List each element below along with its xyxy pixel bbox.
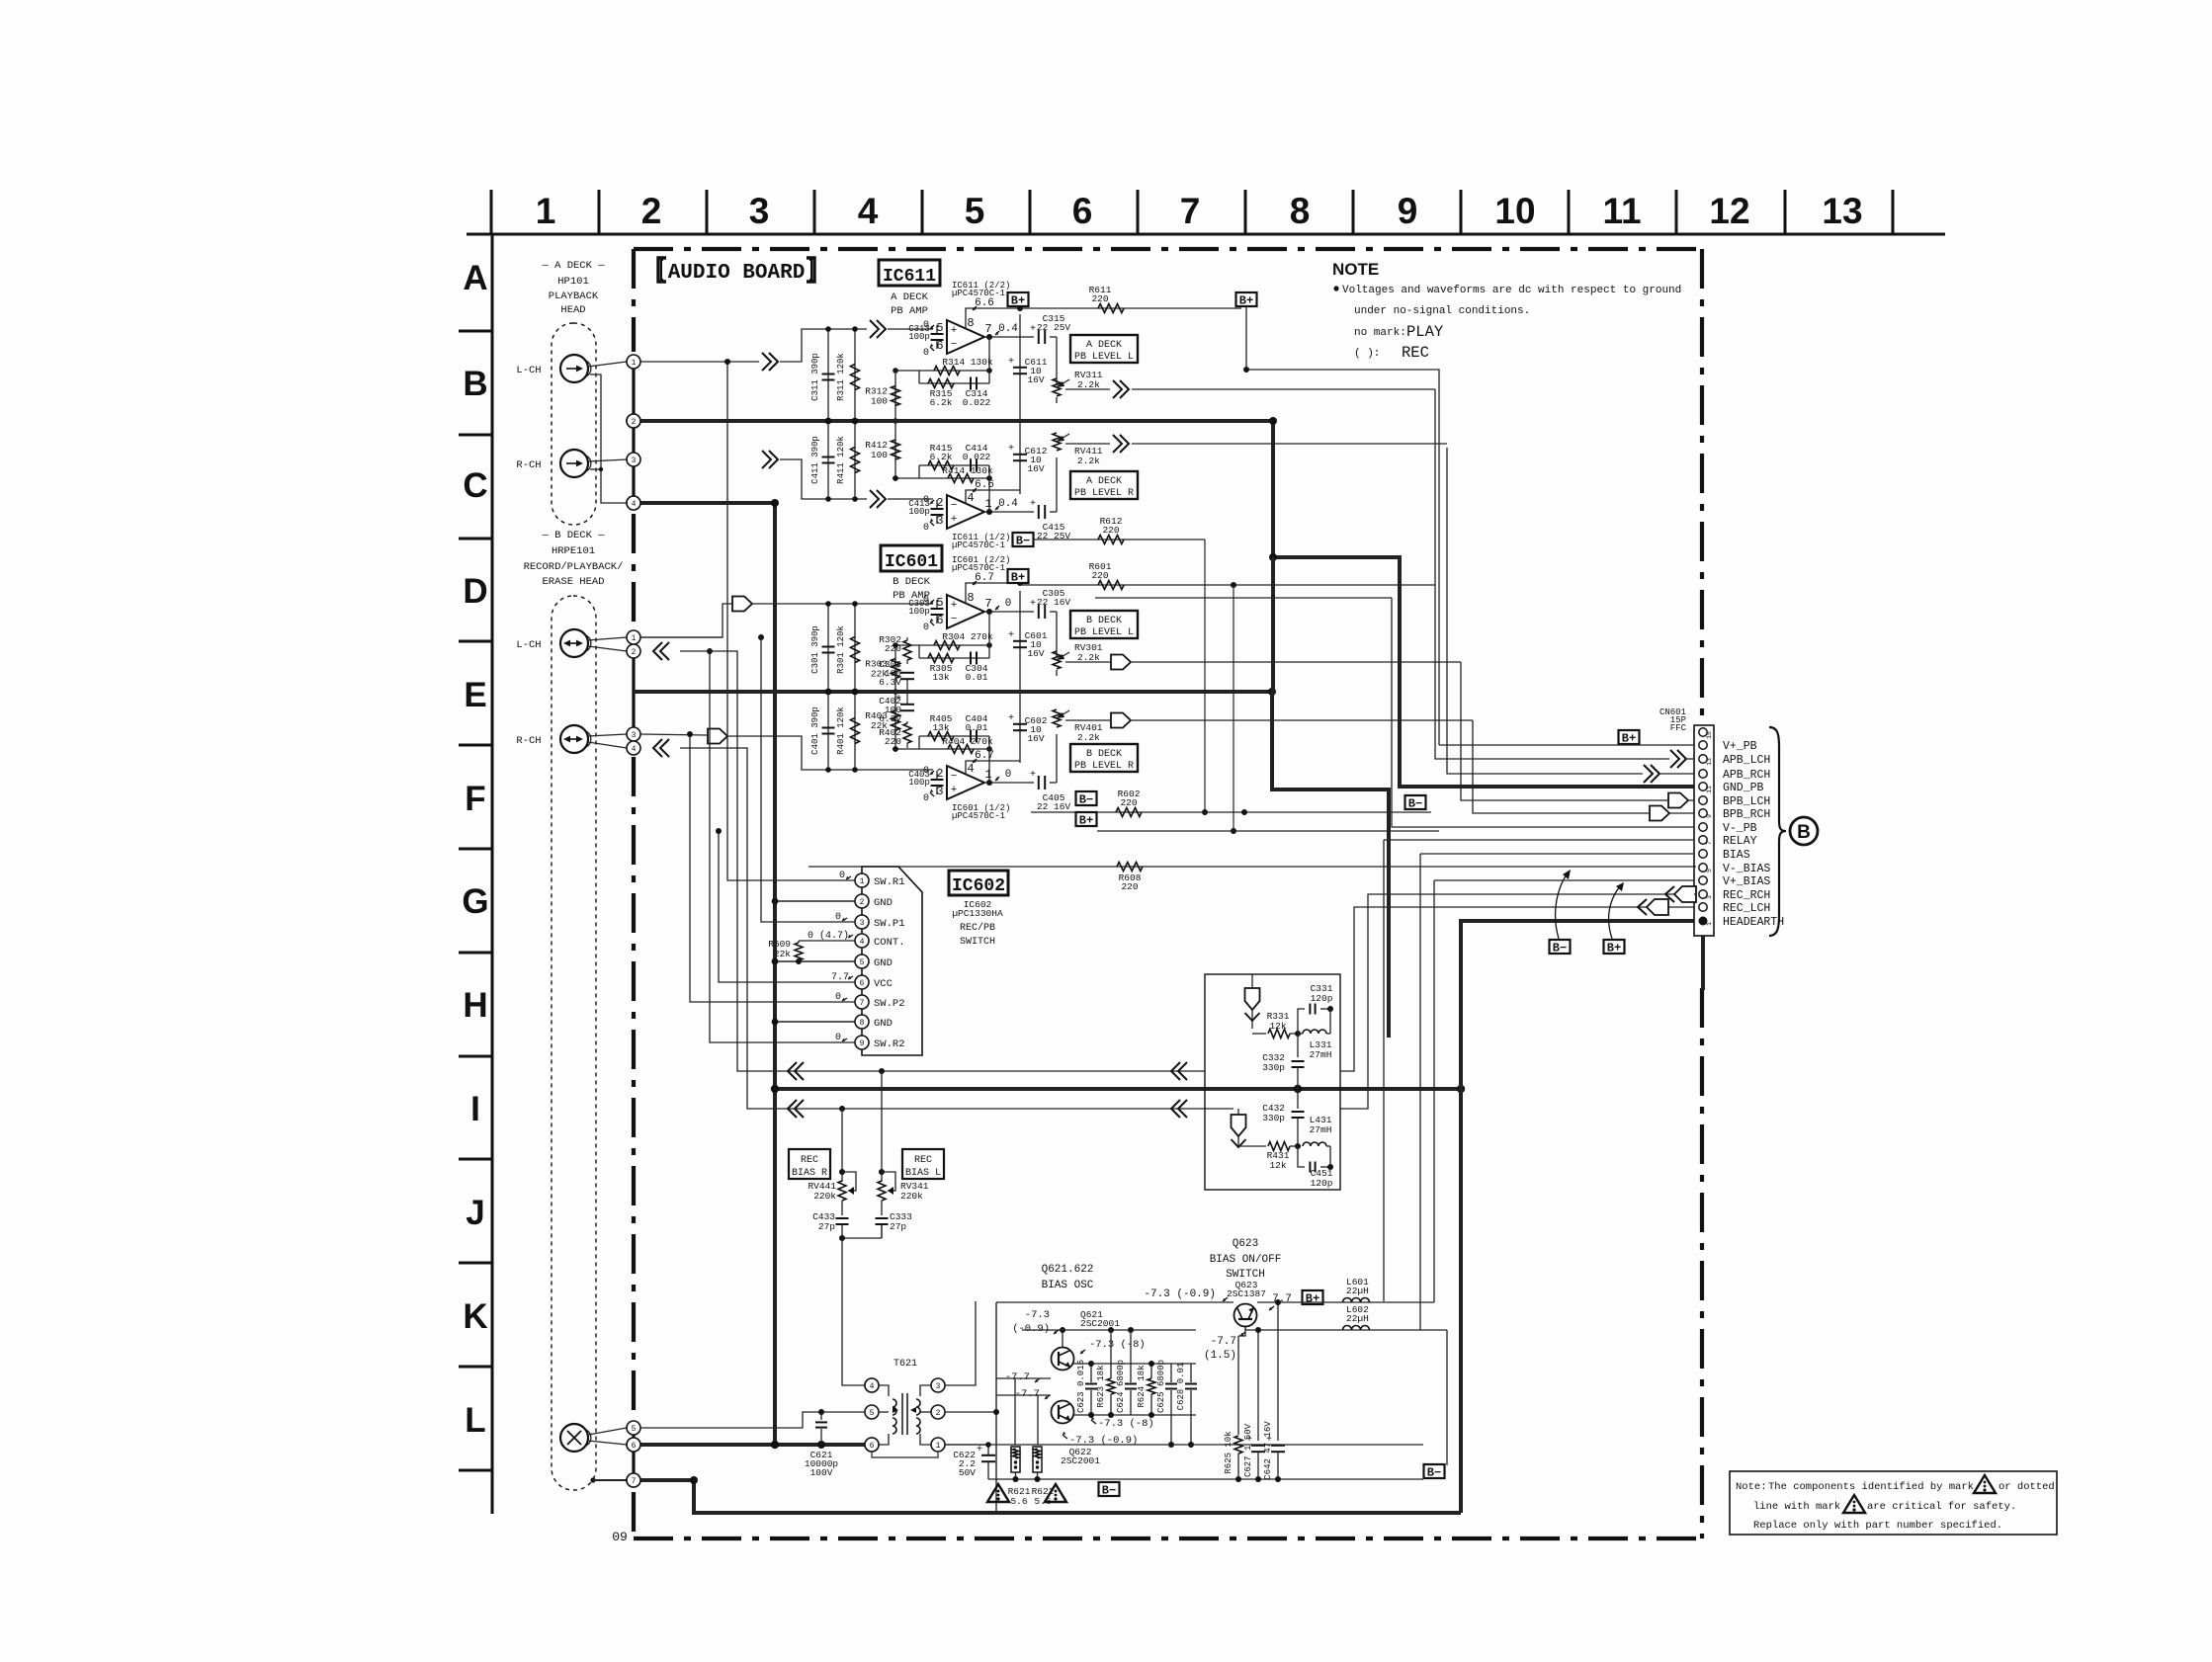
svg-text:6: 6: [632, 1442, 637, 1451]
svg-text:BIAS OSC: BIAS OSC: [1042, 1280, 1094, 1291]
top ruler ticks: [490, 190, 493, 234]
resistor R625: [1237, 1336, 1239, 1435]
svg-text:under no-signal conditions.: under no-signal conditions.: [1354, 305, 1530, 317]
inductor L601: [1343, 1298, 1370, 1303]
wire A in L route: [780, 329, 867, 362]
pin 1 (B): [627, 630, 640, 644]
CN601 pin 9: [1699, 809, 1707, 817]
trimmer RV401: [1056, 734, 1058, 783]
svg-text:PB LEVEL L: PB LEVEL L: [1074, 352, 1134, 363]
wire bundle v1: [727, 362, 855, 880]
box A DECK PB LEVEL R: [1070, 471, 1138, 499]
svg-text:B−: B−: [1427, 1466, 1441, 1480]
CN601 pin 14: [1699, 741, 1707, 749]
resistor R304: [895, 644, 989, 646]
wire L602 row: [1245, 1327, 1435, 1330]
svg-text:27p: 27p: [890, 1221, 906, 1232]
head HP101 L-CH: [560, 355, 588, 382]
svg-text:+: +: [1008, 357, 1014, 368]
output wire upper: [984, 611, 1030, 613]
B- box B lower: [1076, 791, 1097, 805]
gnd bus B corner: [1272, 692, 1389, 1038]
arrow A in L a: [762, 353, 771, 371]
osc bottom rail: [945, 1444, 1423, 1446]
wire T621 pin2: [945, 1411, 996, 1413]
left ruler line: [491, 234, 494, 1514]
wire RV341 top: [881, 1071, 883, 1182]
svg-text:4: 4: [632, 745, 637, 754]
svg-text:NOTE: NOTE: [1332, 260, 1379, 279]
B head pin bus: [632, 632, 635, 753]
wire Q622 emitter: [1073, 1414, 1196, 1416]
svg-text:A: A: [463, 259, 487, 297]
wire APB_RCH: [1447, 448, 1643, 774]
svg-text:A DECK: A DECK: [1086, 476, 1122, 487]
svg-text:µPC4570C-1: µPC4570C-1: [952, 540, 1005, 550]
note bullet: [1333, 286, 1338, 291]
gnd bus B: [634, 690, 1272, 694]
svg-text:-7.3: -7.3: [1025, 1309, 1050, 1321]
opamp supply wire upper: [966, 308, 1020, 329]
svg-text:5: 5: [860, 958, 865, 967]
box B DECK PB LEVEL L: [1070, 611, 1138, 638]
svg-text:8: 8: [967, 591, 974, 605]
T621 coil arrows: [893, 1407, 898, 1413]
IC602 pin 2 GND: [855, 894, 869, 908]
capacitor C642: [1277, 1302, 1279, 1441]
wire gnd pins IC602: [775, 900, 855, 902]
capacitor C623: [1090, 1377, 1092, 1382]
svg-text:-7.7: -7.7: [1005, 1371, 1030, 1383]
svg-text:50V: 50V: [959, 1467, 976, 1478]
svg-text:R-CH: R-CH: [516, 735, 541, 747]
svg-text:16V: 16V: [1027, 733, 1044, 744]
svg-text:C401 390p: C401 390p: [810, 706, 820, 755]
svg-text:1: 1: [984, 497, 991, 511]
series RC lower: [919, 735, 989, 737]
svg-text:6.3V: 6.3V: [879, 713, 901, 724]
svg-text:-7.3 (-0.9): -7.3 (-0.9): [1144, 1288, 1216, 1300]
svg-text:SW.P1: SW.P1: [874, 918, 905, 930]
svg-text:6: 6: [860, 979, 865, 988]
capacitor C405: [1038, 776, 1040, 789]
svg-text:2: 2: [936, 1409, 941, 1418]
svg-text:22µH: 22µH: [1346, 1286, 1369, 1296]
transistor Q623: [1234, 1304, 1257, 1327]
inductor L331: [1303, 1030, 1326, 1034]
svg-text:16V: 16V: [1027, 374, 1044, 385]
svg-text:220: 220: [885, 736, 901, 747]
svg-text:V-_BIAS: V-_BIAS: [1723, 863, 1770, 875]
CN601 pin 4: [1699, 876, 1707, 884]
CN601 pin 7: [1699, 836, 1707, 844]
wire B in R cont: [727, 736, 933, 770]
capacitor C332: [1297, 1034, 1299, 1057]
svg-text:100V: 100V: [810, 1467, 833, 1478]
arc B+ pointer: [1609, 883, 1623, 939]
svg-text:The components identified by m: The components identified by mark: [1768, 1481, 1974, 1493]
svg-text:220: 220: [1102, 525, 1119, 536]
headearth wire: [1461, 921, 1694, 1513]
svg-text:0: 0: [923, 348, 929, 359]
svg-text:9: 9: [1398, 191, 1418, 231]
wire Q623 emitter: [1245, 1327, 1420, 1330]
wire B upper input: [640, 636, 723, 638]
svg-text:B−: B−: [1079, 793, 1093, 807]
svg-text:L-CH: L-CH: [516, 365, 541, 376]
svg-text:SWITCH: SWITCH: [960, 937, 995, 948]
resistor R312: [894, 371, 896, 421]
arrow REC_RCH: [1665, 886, 1674, 902]
svg-text:-7.7: -7.7: [1015, 1388, 1040, 1400]
svg-text:BPB_RCH: BPB_RCH: [1723, 808, 1770, 821]
svg-text:REC_LCH: REC_LCH: [1723, 902, 1770, 915]
svg-text:Q621.622: Q621.622: [1042, 1264, 1094, 1276]
svg-text:10: 10: [1494, 191, 1535, 231]
svg-text:PLAYBACK: PLAYBACK: [549, 291, 599, 302]
bottom thick wire pin7: [640, 1480, 1461, 1513]
junction: [852, 601, 858, 607]
svg-text:8: 8: [860, 1019, 865, 1028]
svg-text:APB_LCH: APB_LCH: [1723, 754, 1770, 767]
junction: [852, 326, 858, 332]
svg-text:HRPE101: HRPE101: [552, 545, 595, 557]
svg-text:0.01: 0.01: [966, 672, 988, 683]
gnd bus A: [634, 419, 1273, 423]
svg-text:C623 0.015: C623 0.015: [1076, 1360, 1086, 1413]
capacitor C311: [827, 329, 829, 421]
filter box: [1205, 974, 1340, 1190]
svg-text:0: 0: [923, 793, 929, 804]
wire out upper B: [1030, 611, 1034, 613]
box B DECK PB LEVEL R: [1070, 744, 1138, 772]
svg-text:330p: 330p: [1262, 1113, 1285, 1123]
bias box left edge: [995, 1302, 997, 1513]
svg-text:0.022: 0.022: [963, 397, 991, 408]
resistor R623: [1110, 1330, 1112, 1378]
trimmer RV341: [882, 1172, 895, 1191]
svg-text:APB_RCH: APB_RCH: [1723, 769, 1770, 782]
svg-text:R411 120k: R411 120k: [836, 436, 846, 484]
svg-text:3: 3: [1706, 895, 1713, 899]
CN601 pin 12: [1699, 770, 1707, 778]
wire bundle v2: [761, 637, 855, 922]
B+ box G row: [1604, 940, 1625, 954]
wire REC_LCH right: [1631, 906, 1638, 908]
svg-text:27p: 27p: [818, 1221, 835, 1232]
svg-text:R623 18k: R623 18k: [1096, 1365, 1106, 1407]
arrow BPB_LCH: [1668, 793, 1688, 808]
pin 4 (A) redraw: [627, 496, 640, 510]
svg-text:13k: 13k: [932, 672, 949, 683]
arrow rec2 left: [788, 1100, 797, 1118]
svg-text:Q623: Q623: [1233, 1238, 1258, 1250]
B+ box B lower: [1076, 812, 1097, 826]
svg-text:27mH: 27mH: [1310, 1049, 1332, 1060]
svg-text:0.022: 0.022: [963, 452, 991, 462]
svg-text:C624 6800p: C624 6800p: [1116, 1360, 1126, 1413]
op-amp IC601 (2/2): [947, 595, 984, 628]
svg-text:−: −: [951, 614, 958, 625]
IC602 pin 3 SW.P1: [855, 915, 869, 929]
circled B: [1790, 817, 1818, 845]
svg-text:R314 130k: R314 130k: [942, 357, 993, 368]
svg-text:+: +: [1030, 324, 1036, 335]
wire Q621 base: [996, 1377, 1051, 1379]
svg-text:L: L: [465, 1401, 485, 1440]
svg-text:16V: 16V: [1027, 463, 1044, 474]
wire BIAS: [1420, 853, 1694, 855]
capacitor C331: [1298, 1009, 1305, 1034]
wire RV411 to right: [1132, 443, 1447, 445]
svg-text:3: 3: [632, 457, 637, 465]
svg-text:2SC1387: 2SC1387: [1227, 1288, 1266, 1299]
svg-text:-7.3 (-8): -7.3 (-8): [1089, 1339, 1146, 1351]
svg-text:B+: B+: [1011, 294, 1025, 308]
B+ box B left: [1008, 569, 1029, 583]
capacitor C602: [1019, 692, 1021, 763]
svg-text:0: 0: [923, 623, 929, 633]
svg-text:6.7: 6.7: [975, 572, 994, 584]
IC602 pin 6 VCC: [855, 975, 869, 989]
svg-text:13k: 13k: [932, 722, 949, 733]
capacitor C624: [1130, 1330, 1132, 1382]
svg-text:1: 1: [1706, 922, 1713, 926]
A deck head capsule: [552, 323, 596, 525]
svg-text:4: 4: [967, 762, 974, 776]
svg-text:22 25V: 22 25V: [1037, 322, 1071, 333]
svg-text:100: 100: [871, 450, 888, 460]
resistor R331: [1252, 1033, 1266, 1035]
arrow BPB_RCH: [1650, 806, 1669, 821]
svg-text:C625 6800p: C625 6800p: [1156, 1360, 1166, 1413]
svg-text:220k: 220k: [900, 1191, 923, 1202]
svg-text:B−: B−: [1016, 535, 1030, 548]
svg-text:100p: 100p: [908, 332, 930, 342]
svg-text:GND: GND: [874, 897, 893, 909]
wire B in L cont: [752, 603, 933, 605]
wire Q621 collector: [1062, 1330, 1063, 1347]
arrow down 1: [1245, 988, 1260, 1010]
wire filter top entry: [1251, 974, 1253, 1029]
series RC upper: [919, 382, 989, 384]
wire V+_PB: [1439, 744, 1694, 746]
junction B1: [758, 634, 764, 640]
arrow rec1 right: [1171, 1062, 1180, 1080]
svg-text:16V: 16V: [1027, 648, 1044, 659]
svg-text:100: 100: [871, 396, 888, 407]
svg-text:B+: B+: [1011, 571, 1025, 585]
resistor R414: [895, 477, 989, 479]
svg-text:−: −: [951, 771, 958, 783]
svg-text:4: 4: [632, 500, 637, 509]
svg-text:2: 2: [641, 191, 662, 231]
wire Q623 collector: [996, 1301, 1234, 1303]
resistor R621 fusible: [1011, 1447, 1020, 1472]
svg-text:+: +: [977, 1445, 982, 1455]
T621 left pins: [865, 1378, 879, 1392]
resistor R404: [895, 748, 989, 750]
CN601 pin 2: [1699, 903, 1707, 911]
op-amp IC601 (1/2): [947, 766, 984, 799]
capacitor C305: [1038, 605, 1040, 619]
arrow rec1 left: [788, 1062, 797, 1080]
svg-text:3: 3: [860, 919, 865, 928]
arrow REC_LCH: [1638, 899, 1647, 915]
svg-text:RECORD/PLAYBACK/: RECORD/PLAYBACK/: [524, 561, 624, 573]
B deck head capsule: [552, 596, 596, 1490]
wire V+_BIAS: [1434, 879, 1694, 881]
op-amp IC611 (2/2): [947, 320, 984, 354]
svg-text:C311 390p: C311 390p: [810, 353, 820, 401]
svg-text:220: 220: [1121, 881, 1138, 892]
svg-text:line with mark: line with mark: [1753, 1501, 1840, 1513]
capacitor C315: [1038, 330, 1040, 344]
capacitor C302: [900, 672, 914, 674]
svg-text:100p: 100p: [908, 607, 930, 617]
svg-text:-7.7: -7.7: [1211, 1336, 1236, 1348]
CN601 pin 15: [1699, 728, 1707, 736]
svg-text:1: 1: [536, 191, 556, 231]
svg-text:C642 47 16V: C642 47 16V: [1263, 1421, 1273, 1480]
wire to T621 pin4: [842, 1238, 865, 1385]
capacitor C611: [1019, 314, 1021, 421]
pin 5 (B): [627, 1421, 640, 1435]
svg-text:11: 11: [1706, 786, 1713, 793]
svg-text:+: +: [951, 514, 958, 526]
svg-text:µPC4570C-1: µPC4570C-1: [952, 811, 1005, 821]
resistor R609: [799, 940, 855, 942]
wire A in R route: [780, 459, 867, 499]
erase head X: [560, 1424, 588, 1452]
B+ box A left: [1008, 292, 1029, 306]
svg-text:L-CH: L-CH: [516, 639, 541, 651]
svg-text:3: 3: [749, 191, 770, 231]
warning triangle 1: [987, 1484, 1009, 1502]
B- box bias bottom: [1099, 1482, 1120, 1496]
svg-text:B−: B−: [1102, 1484, 1116, 1498]
top ruler line: [467, 233, 1945, 236]
svg-text:0 (4.7): 0 (4.7): [808, 930, 849, 942]
head shield wire A: [590, 374, 627, 503]
resistor R401: [854, 692, 856, 770]
resistor R612: [1098, 536, 1124, 544]
svg-text:REC: REC: [1402, 344, 1429, 362]
head HP101 R-CH: [560, 450, 588, 477]
left ruler ticks: [459, 330, 492, 333]
svg-text:09: 09: [612, 1530, 628, 1544]
svg-text:4: 4: [860, 938, 865, 947]
svg-text:6.7: 6.7: [975, 750, 994, 762]
B+ line lower: [1097, 830, 1439, 832]
arrow in pin4B: [653, 739, 662, 757]
svg-text:B DECK: B DECK: [1086, 749, 1122, 760]
resistor R303: [894, 645, 896, 692]
CN601 pin 5: [1699, 864, 1707, 872]
capacitor C621: [820, 1412, 822, 1420]
trimmer RV441: [842, 1172, 856, 1191]
svg-text:5: 5: [1706, 869, 1713, 873]
resistor R611: [1098, 304, 1124, 313]
svg-text:RELAY: RELAY: [1723, 835, 1757, 848]
CN601 pin 1 HEADEARTH: [1699, 917, 1708, 926]
svg-text:+: +: [1008, 630, 1014, 641]
svg-text:ERASE HEAD: ERASE HEAD: [542, 576, 604, 588]
svg-text:13: 13: [1706, 758, 1713, 766]
svg-text:REC/PB: REC/PB: [960, 922, 995, 934]
svg-text:220: 220: [885, 643, 901, 654]
arrow APB_RCH: [1644, 765, 1653, 783]
svg-text:R304 270k: R304 270k: [942, 631, 993, 642]
arrow A in R b: [870, 490, 879, 508]
svg-text:1: 1: [860, 877, 865, 886]
svg-text:BIAS L: BIAS L: [905, 1168, 941, 1179]
junction: [825, 601, 831, 607]
series RC lower: [919, 464, 989, 466]
svg-text:2.2k: 2.2k: [1077, 456, 1100, 466]
capacitor C622: [981, 1454, 995, 1456]
svg-text:D: D: [463, 572, 487, 611]
svg-text:22µH: 22µH: [1346, 1313, 1369, 1324]
svg-text:4: 4: [967, 491, 974, 505]
svg-text:B+: B+: [1607, 942, 1621, 956]
IC611 box label: [879, 260, 940, 286]
resistor R602: [1116, 808, 1142, 817]
wire bundle v4: [710, 651, 855, 1042]
svg-text:4: 4: [870, 1382, 875, 1391]
resistor R412: [894, 421, 896, 478]
svg-text:BIAS ON/OFF: BIAS ON/OFF: [1210, 1254, 1282, 1266]
wire Q622 base: [996, 1394, 1051, 1396]
svg-text:5.6: 5.6: [1010, 1496, 1027, 1507]
CN601 pin 6: [1699, 850, 1707, 858]
wire RV401 to right: [1132, 719, 1473, 721]
arrow A in L b: [870, 320, 879, 338]
capacitor C313: [931, 333, 944, 335]
svg-text:2: 2: [860, 898, 865, 907]
board outline top: [634, 247, 1702, 251]
svg-text:GND_PB: GND_PB: [1723, 782, 1764, 794]
wire RV301 to right: [1132, 661, 1461, 663]
svg-text:PB AMP: PB AMP: [891, 305, 928, 317]
pin 7 (B) redraw: [627, 1473, 640, 1487]
svg-text:5: 5: [632, 1425, 637, 1434]
svg-text:220k: 220k: [813, 1191, 836, 1202]
T621 pin 4 redraw: [865, 1378, 879, 1392]
capacitor C625: [1170, 1364, 1172, 1382]
junction rec wires: [879, 1068, 885, 1074]
svg-text:3: 3: [632, 731, 637, 740]
svg-text:BIAS: BIAS: [1723, 849, 1750, 862]
series RC upper: [919, 657, 989, 659]
svg-text:220: 220: [1091, 293, 1108, 304]
arrow RV401: [1111, 713, 1131, 728]
svg-text:6.2k: 6.2k: [930, 397, 953, 408]
wire REC_RCH run: [1340, 894, 1694, 1109]
svg-text:H: H: [463, 986, 487, 1025]
capacitor C628: [1190, 1364, 1192, 1382]
arrow rec2 right: [1171, 1100, 1180, 1118]
svg-text:Replace only with part number: Replace only with part number specified.: [1753, 1520, 2002, 1532]
wiper wire RV411: [1065, 443, 1110, 445]
svg-text:IC601: IC601: [885, 552, 938, 572]
wire Bhead L to pins: [588, 637, 627, 640]
svg-text:220: 220: [1120, 797, 1137, 808]
wire T621 pin3: [945, 1301, 976, 1385]
CN601 pin 13: [1699, 755, 1707, 763]
svg-text:— B DECK —: — B DECK —: [541, 530, 605, 541]
R608 line: [808, 866, 1696, 868]
